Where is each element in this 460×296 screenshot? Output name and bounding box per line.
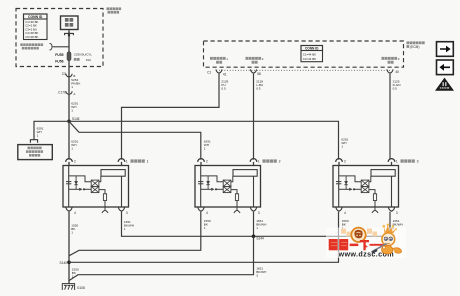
mascot bbox=[372, 224, 402, 254]
svg-text:CONN ID: CONN ID bbox=[305, 47, 319, 51]
svg-text:0.5: 0.5 bbox=[393, 86, 398, 90]
wire C3 to C170, label 5254 PK/BK 1 bbox=[68, 77, 70, 94]
wire: ECM pin 40 to coil 3 pin 1 (2125 D-GN) bbox=[389, 74, 391, 160]
svg-text:1: 1 bbox=[204, 226, 206, 230]
note box (see diagram note) bbox=[18, 145, 53, 160]
wire: ECM pin 41 to coil 1 pin 1 (2129 PU) bbox=[122, 74, 220, 160]
faint characters behind logo bbox=[341, 229, 377, 237]
wire label 2125 D-GN 0.5 bbox=[393, 79, 401, 90]
wire label 5254 PK/BK 1 bbox=[71, 78, 81, 89]
connector above note box bbox=[30, 140, 37, 143]
wire label 1550 BK 1 (coil 2 pin 4) bbox=[204, 219, 211, 230]
ECM module U1 (dashed enclosure) bbox=[204, 41, 404, 67]
ECM pin 41 bbox=[216, 69, 222, 73]
splice S140 bbox=[67, 261, 71, 265]
CONN ID table (fuse box) bbox=[24, 14, 48, 40]
main relay label (Chinese 2x2) bbox=[65, 18, 73, 27]
svg-text:A: A bbox=[73, 92, 75, 96]
back arrow icon bbox=[437, 60, 454, 75]
svg-text:15A: 15A bbox=[86, 58, 91, 62]
connector symbol under relay bbox=[65, 33, 74, 37]
svg-text:S144: S144 bbox=[256, 236, 264, 240]
bracket to fuse bbox=[50, 44, 54, 51]
wire: coil 3 pin 4 to S140 bus (1550 BK) bbox=[69, 212, 339, 262]
svg-text:0.5: 0.5 bbox=[256, 86, 261, 90]
main relay box bbox=[61, 16, 79, 30]
ignition coil 1 label bbox=[131, 159, 145, 162]
tail curl bbox=[393, 248, 402, 253]
connector C3 bbox=[66, 74, 72, 77]
svg-text:1: 1 bbox=[147, 160, 149, 164]
svg-text:(ECM): (ECM) bbox=[410, 45, 419, 49]
wire: S145 diagonal to lower bus bbox=[69, 121, 79, 132]
wire label 6291 WH 1 (note branch) bbox=[37, 127, 44, 138]
head bbox=[382, 233, 395, 246]
wire: coil 1 pin 3 to S144 (1651 BK/WH) bbox=[122, 212, 254, 237]
svg-text:41: 41 bbox=[223, 73, 227, 77]
svg-text:C3: C3 bbox=[62, 72, 66, 76]
wire label 1651 BK/WH 1 (coil 1 pin 3) bbox=[124, 220, 134, 231]
svg-text:CONN ID: CONN ID bbox=[28, 15, 43, 19]
ignition coil 1 bbox=[63, 159, 129, 215]
white slits inside solid characters bbox=[331, 242, 347, 246]
label: fuse box name (Chinese, 2 lines) bbox=[107, 7, 122, 13]
wire: coil 2 pin 3 to S144 bbox=[253, 212, 255, 237]
circular seal logo bbox=[351, 228, 365, 242]
svg-text:1: 1 bbox=[71, 230, 73, 234]
ECM internal label: ignition coil 1 control bbox=[210, 57, 226, 64]
ECM internal label: ignition coil 2 control bbox=[246, 57, 262, 64]
svg-text:1: 1 bbox=[71, 85, 73, 89]
brush/sword bbox=[372, 244, 387, 253]
wire: S145 down to coil 1 pin 2 bbox=[68, 121, 70, 159]
forward arrow icon bbox=[437, 42, 454, 57]
svg-text:2: 2 bbox=[279, 160, 281, 164]
wire: coil 1 pin 4 down to ground (1550 BK) bbox=[68, 212, 70, 284]
wire label 6291 WH 1 (to coil 3) bbox=[341, 138, 348, 149]
svg-text:1: 1 bbox=[256, 226, 258, 230]
svg-text:1: 1 bbox=[71, 147, 73, 151]
connector C170 bbox=[66, 91, 72, 94]
ECM pin 58 bbox=[250, 69, 256, 73]
svg-text:C030 BU/CYL: C030 BU/CYL bbox=[74, 53, 93, 57]
wire label 1550 BK 1 (below S140) bbox=[72, 267, 79, 278]
wire label 6291 WH 1 (to coil 1) bbox=[71, 140, 78, 151]
svg-text:1: 1 bbox=[341, 145, 343, 149]
wire: bus to coil 2 pin 2 bbox=[79, 132, 201, 159]
ignition coil 3 bbox=[333, 159, 399, 215]
wire label 2129 PU 0.5 bbox=[221, 79, 228, 90]
ignition coil 2 label bbox=[263, 159, 277, 162]
wire label 1651 BK/WH 1 (coil 2 pin 3) bbox=[256, 219, 266, 230]
wire label 1550 BK 1 (coil 1 pin 4) bbox=[71, 223, 78, 234]
svg-text:FU55: FU55 bbox=[55, 53, 63, 57]
svg-text:1: 1 bbox=[71, 109, 73, 113]
red underline arrow bbox=[370, 244, 385, 246]
wire label 2128 L-BU 0.5 bbox=[256, 79, 263, 90]
red brand characters 维库一下 bbox=[329, 239, 369, 250]
svg-text:3: 3 bbox=[417, 160, 419, 164]
svg-text:1: 1 bbox=[204, 147, 206, 151]
wire label 6291 WH 1 (to coil 2) bbox=[204, 140, 211, 151]
wire relay to fuse bbox=[68, 30, 70, 53]
svg-text:C2=44 BK: C2=44 BK bbox=[303, 57, 316, 61]
wire: S145 left branch to note box bbox=[34, 121, 69, 140]
body bbox=[382, 246, 393, 254]
splice S145 bbox=[67, 120, 71, 124]
ECM connector dotted line C1 bbox=[219, 69, 390, 71]
svg-text:3: 3 bbox=[256, 274, 258, 278]
ECM internal label: ignition coil 3 control bbox=[382, 57, 398, 64]
svg-text:58: 58 bbox=[257, 72, 261, 76]
svg-text:G108: G108 bbox=[77, 286, 85, 290]
wire fuse to C3 bbox=[68, 61, 70, 77]
svg-text:S145: S145 bbox=[72, 117, 80, 121]
ground G108 bbox=[62, 284, 75, 290]
wire label 1651 BK/WH 3 (S144 to S140) bbox=[256, 267, 266, 278]
ignition coil 2 bbox=[195, 159, 261, 215]
warning triangle logo bbox=[435, 78, 454, 91]
wire label 1550 BK 1 (coil 3 pin 4) bbox=[342, 219, 349, 230]
white halo of watermark bbox=[326, 228, 406, 259]
fuse box (dashed enclosure, engine compartment fuse block) bbox=[16, 9, 103, 67]
wire label 6291 WH 1 bbox=[71, 102, 78, 113]
svg-text:1: 1 bbox=[37, 134, 39, 138]
ignition coil 3 label bbox=[401, 159, 415, 162]
splice S144 bbox=[252, 235, 256, 239]
service note text + bracket bbox=[20, 43, 43, 49]
ECM name label (right of box) bbox=[407, 41, 425, 47]
wire: ECM pin 58 to coil 2 pin 1 (2128 L-BU) bbox=[253, 74, 255, 160]
svg-text:C170: C170 bbox=[58, 90, 66, 94]
CONN ID table (ECM) bbox=[301, 46, 323, 62]
svg-text:C1: C1 bbox=[207, 70, 211, 74]
svg-text:0.5: 0.5 bbox=[221, 86, 226, 90]
svg-text:S140: S140 bbox=[60, 261, 68, 265]
wire: S144 down to S140 (1651 BK/WH 3) bbox=[69, 236, 254, 280]
svg-text:1: 1 bbox=[124, 227, 126, 231]
wire: bus A from S145 to coil 3 pin 2 bbox=[69, 121, 339, 159]
wire: coil 3 pin 3 to S144 bbox=[254, 212, 391, 237]
svg-text:FU56: FU56 bbox=[55, 59, 63, 63]
wire: coil 2 pin 4 to ground bus (1550 BK) bbox=[69, 212, 201, 256]
svg-text:40: 40 bbox=[395, 70, 399, 74]
svg-text:C5=28 BK: C5=28 BK bbox=[25, 35, 38, 39]
ECM pin 40 bbox=[387, 69, 393, 73]
wire C170 to S145, label 6291 WH 1 bbox=[68, 94, 70, 121]
wire label 1651 BK/WH 1 (coil 3 pin 3) bbox=[393, 219, 403, 230]
